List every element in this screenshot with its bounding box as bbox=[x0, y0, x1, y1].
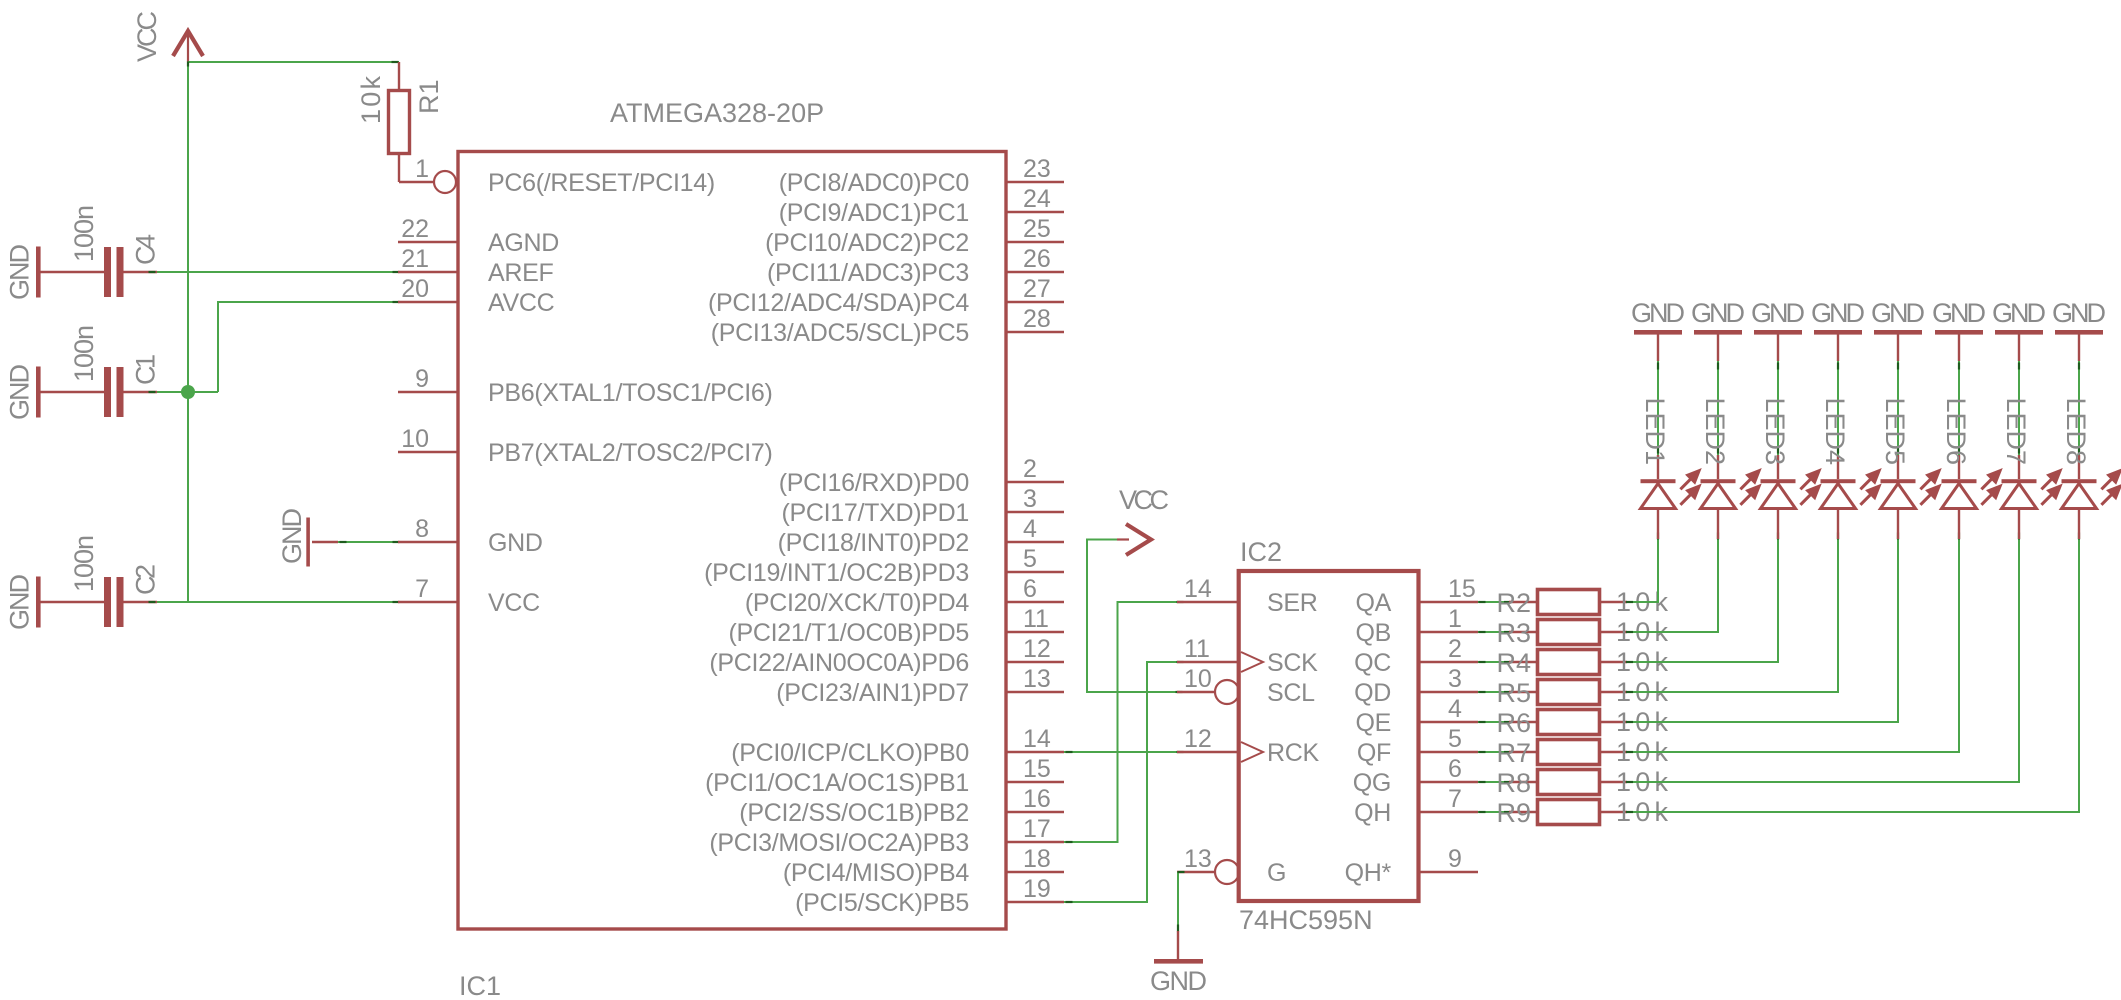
wire net: R5 to LED4 bbox=[1626, 533, 1838, 693]
svg-text:(PCI10/ADC2)PC2: (PCI10/ADC2)PC2 bbox=[765, 229, 969, 257]
svg-text:LED6: LED6 bbox=[1941, 397, 1971, 465]
IC IC1 ATMEGA328-20P body bbox=[458, 152, 1006, 930]
resistor R4 10k bbox=[1496, 647, 1668, 678]
IC2 pin 6 QG bbox=[1353, 755, 1478, 797]
IC2 pin 5 QF bbox=[1357, 725, 1478, 767]
svg-text:GND: GND bbox=[1150, 966, 1207, 996]
wire net: R8 to LED7 bbox=[1626, 533, 2019, 783]
svg-text:GND: GND bbox=[5, 364, 35, 420]
svg-text:C4: C4 bbox=[131, 234, 161, 265]
svg-text:ATMEGA328-20P: ATMEGA328-20P bbox=[610, 98, 824, 128]
svg-text:(PCI21/T1/OC0B)PD5: (PCI21/T1/OC0B)PD5 bbox=[728, 619, 969, 647]
IC1 pin 20 AVCC bbox=[398, 275, 555, 317]
IC1 pin 10 PB7(XTAL2/TOSC2/PCI7) bbox=[398, 425, 773, 467]
svg-text:22: 22 bbox=[401, 215, 429, 243]
svg-text:28: 28 bbox=[1023, 305, 1051, 333]
svg-text:GND: GND bbox=[1751, 298, 1805, 328]
IC1 pin 13 (PCI23/AIN1)PD7 bbox=[776, 665, 1064, 707]
IC1 pin 24 (PCI9/ADC1)PC1 bbox=[779, 185, 1064, 227]
svg-text:10: 10 bbox=[401, 425, 429, 453]
wire net: IC2 pin to R6 bbox=[1478, 721, 1511, 723]
svg-text:GND: GND bbox=[1932, 298, 1986, 328]
svg-text:14: 14 bbox=[1184, 575, 1212, 603]
svg-text:(PCI8/ADC0)PC0: (PCI8/ADC0)PC0 bbox=[779, 169, 969, 197]
resistor R5 10k bbox=[1496, 677, 1668, 708]
resistor R3 10k bbox=[1496, 617, 1668, 648]
ground symbol GND (C2) bbox=[5, 574, 41, 630]
svg-text:LED5: LED5 bbox=[1880, 397, 1910, 465]
svg-text:100n: 100n bbox=[69, 535, 99, 592]
svg-text:LED1: LED1 bbox=[1640, 397, 1670, 465]
svg-text:R8: R8 bbox=[1496, 768, 1531, 798]
svg-text:GND: GND bbox=[5, 574, 35, 630]
capacitor C1 100n bbox=[40, 325, 161, 417]
svg-text:14: 14 bbox=[1023, 725, 1051, 753]
svg-text:13: 13 bbox=[1023, 665, 1051, 693]
svg-text:VCC: VCC bbox=[1119, 485, 1169, 515]
wire net: IC2 pin to R2 bbox=[1478, 601, 1511, 603]
svg-text:GND: GND bbox=[1811, 298, 1865, 328]
svg-text:(PCI17/TXD)PD1: (PCI17/TXD)PD1 bbox=[781, 499, 969, 527]
IC1 pin 9 PB6(XTAL1/TOSC1/PCI6) bbox=[398, 365, 773, 407]
svg-text:(PCI19/INT1/OC2B)PD3: (PCI19/INT1/OC2B)PD3 bbox=[704, 559, 969, 587]
wire net: R4 to LED3 bbox=[1626, 533, 1778, 663]
wire net: R7 to LED6 bbox=[1626, 533, 1959, 753]
svg-text:GND: GND bbox=[488, 529, 543, 557]
junction VCC (at C1 row) bbox=[181, 385, 195, 399]
svg-text:SCL: SCL bbox=[1267, 679, 1315, 707]
ground symbol GND (C4) bbox=[5, 244, 41, 300]
svg-text:20: 20 bbox=[401, 275, 429, 303]
ground symbol GND (IC1 pin 8) bbox=[277, 508, 338, 567]
capacitor C4 100n bbox=[40, 205, 161, 297]
svg-text:IC1: IC1 bbox=[459, 971, 501, 1000]
IC1 pin 27 (PCI12/ADC4/SDA)PC4 bbox=[708, 275, 1064, 317]
svg-text:15: 15 bbox=[1023, 755, 1051, 783]
svg-text:PC6(/RESET/PCI14): PC6(/RESET/PCI14) bbox=[488, 169, 715, 197]
svg-text:R2: R2 bbox=[1496, 588, 1531, 618]
svg-text:PB6(XTAL1/TOSC1/PCI6): PB6(XTAL1/TOSC1/PCI6) bbox=[488, 379, 773, 407]
svg-text:GND: GND bbox=[1691, 298, 1745, 328]
ground symbol GND (above LED6) bbox=[1932, 298, 1986, 361]
svg-text:(PCI23/AIN1)PD7: (PCI23/AIN1)PD7 bbox=[776, 679, 969, 707]
IC2 pin 10 SCL bbox=[1177, 665, 1315, 707]
wire GND net: to LED6 cathode bbox=[1958, 361, 1960, 455]
svg-text:(PCI2/SS/OC1B)PB2: (PCI2/SS/OC1B)PB2 bbox=[739, 799, 969, 827]
wire GND net: to LED5 cathode bbox=[1897, 361, 1899, 455]
svg-text:(PCI11/ADC3)PC3: (PCI11/ADC3)PC3 bbox=[767, 259, 969, 287]
svg-text:(PCI12/ADC4/SDA)PC4: (PCI12/ADC4/SDA)PC4 bbox=[708, 289, 969, 317]
wire VCC net: to IC1 pin 20 AVCC bbox=[218, 302, 400, 392]
svg-text:PB7(XTAL2/TOSC2/PCI7): PB7(XTAL2/TOSC2/PCI7) bbox=[488, 439, 773, 467]
IC2 pin 2 QC bbox=[1354, 635, 1478, 677]
wire VCC net: vertical rail x=188 bbox=[187, 62, 189, 603]
IC IC2 74HC595N body bbox=[1239, 571, 1419, 901]
svg-text:C2: C2 bbox=[131, 564, 161, 595]
IC1 pin 23 (PCI8/ADC0)PC0 bbox=[779, 155, 1064, 197]
svg-text:7: 7 bbox=[415, 575, 429, 603]
LED LED8 bbox=[2061, 397, 2120, 539]
svg-text:VCC: VCC bbox=[132, 11, 162, 62]
IC2 pin 12 RCK bbox=[1177, 725, 1320, 767]
svg-text:G: G bbox=[1267, 859, 1286, 887]
IC1 pin 12 (PCI22/AIN0OC0A)PD6 bbox=[709, 635, 1064, 677]
wire GND net: to LED4 cathode bbox=[1837, 361, 1839, 455]
wire GND net: to IC1 pin 8 bbox=[338, 541, 400, 543]
wire GND net: to LED7 cathode bbox=[2018, 361, 2020, 455]
svg-text:R7: R7 bbox=[1496, 738, 1531, 768]
resistor R9 10k bbox=[1496, 797, 1668, 828]
IC2 pin 3 QD bbox=[1354, 665, 1478, 707]
svg-text:(PCI5/SCK)PB5: (PCI5/SCK)PB5 bbox=[795, 889, 969, 917]
label IC1 (name) bbox=[459, 971, 501, 1000]
svg-text:4: 4 bbox=[1448, 695, 1462, 723]
svg-text:1: 1 bbox=[1448, 605, 1462, 633]
wire net: R9 to LED8 bbox=[1626, 533, 2079, 813]
svg-text:GND: GND bbox=[277, 508, 307, 564]
svg-text:SCK: SCK bbox=[1267, 649, 1318, 677]
LED LED3 bbox=[1760, 397, 1819, 539]
wire net PB0-RCK: IC1 pin 14 to IC2 pin 12 bbox=[1064, 751, 1184, 753]
wire net: IC2 pin to R5 bbox=[1478, 691, 1511, 693]
capacitor C2 100n bbox=[40, 535, 161, 627]
wire VCC net: C2 row to IC1 pin 7 VCC bbox=[157, 601, 400, 603]
svg-text:R6: R6 bbox=[1496, 708, 1531, 738]
svg-text:AGND: AGND bbox=[488, 229, 559, 257]
svg-text:18: 18 bbox=[1023, 845, 1051, 873]
svg-text:VCC: VCC bbox=[488, 589, 540, 617]
wire net: IC2 pin to R8 bbox=[1478, 781, 1511, 783]
svg-text:R5: R5 bbox=[1496, 678, 1531, 708]
IC2 pin 13 G bbox=[1177, 845, 1286, 887]
svg-text:GND: GND bbox=[5, 244, 35, 300]
svg-text:21: 21 bbox=[401, 245, 429, 273]
IC1 pin 7 VCC bbox=[398, 575, 540, 617]
IC2 pin 1 QB bbox=[1355, 605, 1478, 647]
svg-text:LED2: LED2 bbox=[1700, 397, 1730, 465]
svg-text:5: 5 bbox=[1448, 725, 1462, 753]
svg-text:9: 9 bbox=[1448, 845, 1462, 873]
svg-text:AVCC: AVCC bbox=[488, 289, 555, 317]
IC1 pin 8 GND bbox=[398, 515, 543, 557]
ground symbol GND (above LED7) bbox=[1992, 298, 2046, 361]
IC2 pin 14 SER bbox=[1177, 575, 1318, 617]
svg-text:LED4: LED4 bbox=[1820, 397, 1850, 465]
svg-text:LED3: LED3 bbox=[1760, 397, 1790, 465]
svg-text:2: 2 bbox=[1023, 455, 1037, 483]
svg-text:QH: QH bbox=[1354, 799, 1391, 827]
svg-text:12: 12 bbox=[1023, 635, 1051, 663]
svg-text:100n: 100n bbox=[69, 325, 99, 382]
svg-text:6: 6 bbox=[1023, 575, 1037, 603]
svg-text:9: 9 bbox=[415, 365, 429, 393]
svg-text:1: 1 bbox=[415, 155, 429, 183]
LED LED4 bbox=[1820, 397, 1879, 539]
svg-text:11: 11 bbox=[1184, 635, 1210, 663]
svg-text:QH*: QH* bbox=[1345, 859, 1392, 887]
wire net: IC2 pin to R9 bbox=[1478, 811, 1511, 813]
svg-text:LED7: LED7 bbox=[2001, 397, 2031, 465]
svg-text:24: 24 bbox=[1023, 185, 1051, 213]
svg-text:5: 5 bbox=[1023, 545, 1037, 573]
wire net: IC2 pin to R3 bbox=[1478, 631, 1511, 633]
svg-text:10k: 10k bbox=[356, 76, 386, 125]
ground symbol GND (above LED5) bbox=[1871, 298, 1925, 361]
svg-text:4: 4 bbox=[1023, 515, 1037, 543]
ground symbol GND (above LED4) bbox=[1811, 298, 1865, 361]
svg-text:19: 19 bbox=[1023, 875, 1051, 903]
svg-text:100n: 100n bbox=[69, 205, 99, 262]
IC2 pin 9 QH* bbox=[1345, 845, 1478, 887]
wire net: R2 to LED1 bbox=[1626, 533, 1658, 603]
svg-text:QC: QC bbox=[1354, 649, 1391, 677]
wire GND net: to LED8 cathode bbox=[2078, 361, 2080, 455]
IC2 pin 11 SCK bbox=[1177, 635, 1318, 677]
svg-text:12: 12 bbox=[1184, 725, 1212, 753]
wire GND net: to LED2 cathode bbox=[1717, 361, 1719, 455]
svg-text:QE: QE bbox=[1355, 709, 1391, 737]
label ATMEGA328-20P (IC1 value) bbox=[610, 98, 824, 128]
svg-text:(PCI18/INT0)PD2: (PCI18/INT0)PD2 bbox=[778, 529, 969, 557]
svg-text:(PCI1/OC1A/OC1S)PB1: (PCI1/OC1A/OC1S)PB1 bbox=[705, 769, 969, 797]
ground symbol GND (above LED1) bbox=[1631, 298, 1685, 361]
ground symbol GND (below IC2) bbox=[1150, 931, 1207, 996]
svg-text:17: 17 bbox=[1023, 815, 1051, 843]
IC1 pin 15 (PCI1/OC1A/OC1S)PB1 bbox=[705, 755, 1064, 797]
resistor R8 10k bbox=[1496, 767, 1668, 798]
IC2 pin 4 QE bbox=[1355, 695, 1478, 737]
svg-text:7: 7 bbox=[1448, 785, 1462, 813]
svg-text:3: 3 bbox=[1448, 665, 1462, 693]
resistor R2 10k bbox=[1496, 587, 1668, 618]
IC1 pin 25 (PCI10/ADC2)PC2 bbox=[765, 215, 1064, 257]
IC1 pin 26 (PCI11/ADC3)PC3 bbox=[767, 245, 1064, 287]
svg-text:(PCI13/ADC5/SCL)PC5: (PCI13/ADC5/SCL)PC5 bbox=[711, 319, 969, 347]
svg-text:6: 6 bbox=[1448, 755, 1462, 783]
wire GND net: IC2 pin 13 to ground bbox=[1178, 872, 1185, 932]
svg-text:(PCI20/XCK/T0)PD4: (PCI20/XCK/T0)PD4 bbox=[745, 589, 970, 617]
svg-text:25: 25 bbox=[1023, 215, 1051, 243]
IC1 pin 21 AREF bbox=[398, 245, 554, 287]
svg-text:16: 16 bbox=[1023, 785, 1051, 813]
svg-text:(PCI0/ICP/CLKO)PB0: (PCI0/ICP/CLKO)PB0 bbox=[731, 739, 969, 767]
IC1 pin 1 PC6(/RESET/PCI14) bbox=[415, 155, 715, 197]
IC1 pin 4 (PCI18/INT0)PD2 bbox=[778, 515, 1064, 557]
IC1 pin 11 (PCI21/T1/OC0B)PD5 bbox=[728, 605, 1064, 647]
wire VCC net: VCC symbol to IC2 pin 10 SCL bbox=[1087, 540, 1183, 693]
ground symbol GND (C1) bbox=[5, 364, 41, 420]
LED LED5 bbox=[1880, 397, 1939, 539]
wire net: IC2 pin to R7 bbox=[1478, 751, 1511, 753]
IC1 pin 17 (PCI3/MOSI/OC2A)PB3 bbox=[709, 815, 1064, 857]
svg-text:10: 10 bbox=[1184, 665, 1212, 693]
svg-text:8: 8 bbox=[415, 515, 429, 543]
wire VCC net: C1 to junction bbox=[157, 391, 218, 393]
IC1 pin 2 (PCI16/RXD)PD0 bbox=[779, 455, 1064, 497]
svg-text:R3: R3 bbox=[1496, 618, 1531, 648]
svg-text:(PCI9/ADC1)PC1: (PCI9/ADC1)PC1 bbox=[779, 199, 969, 227]
IC1 pin 22 AGND bbox=[398, 215, 559, 257]
IC1 pin 3 (PCI17/TXD)PD1 bbox=[781, 485, 1064, 527]
IC1 pin 16 (PCI2/SS/OC1B)PB2 bbox=[739, 785, 1064, 827]
svg-text:GND: GND bbox=[1992, 298, 2046, 328]
ground symbol GND (above LED2) bbox=[1691, 298, 1745, 361]
svg-text:QD: QD bbox=[1354, 679, 1391, 707]
wire net: R3 to LED2 bbox=[1626, 533, 1718, 633]
svg-text:26: 26 bbox=[1023, 245, 1051, 273]
svg-text:GND: GND bbox=[2052, 298, 2106, 328]
svg-text:11: 11 bbox=[1023, 605, 1049, 633]
svg-text:GND: GND bbox=[1871, 298, 1925, 328]
svg-text:LED8: LED8 bbox=[2061, 397, 2091, 465]
svg-text:(PCI16/RXD)PD0: (PCI16/RXD)PD0 bbox=[779, 469, 969, 497]
wire GND net: to LED3 cathode bbox=[1777, 361, 1779, 455]
LED LED1 bbox=[1640, 397, 1699, 539]
svg-text:R9: R9 bbox=[1496, 798, 1531, 828]
wire net: R6 to LED5 bbox=[1626, 533, 1898, 723]
svg-text:(PCI22/AIN0OC0A)PD6: (PCI22/AIN0OC0A)PD6 bbox=[709, 649, 969, 677]
wire net PB3-SER: IC1 pin 17 to IC2 pin 14 bbox=[1064, 602, 1184, 842]
power symbol VCC (near IC2) bbox=[1117, 485, 1169, 555]
svg-text:QF: QF bbox=[1357, 739, 1391, 767]
svg-text:QA: QA bbox=[1355, 589, 1391, 617]
ground symbol GND (above LED3) bbox=[1751, 298, 1805, 361]
svg-text:QG: QG bbox=[1353, 769, 1391, 797]
wire GND net: to LED1 cathode bbox=[1657, 361, 1659, 455]
resistor R7 10k bbox=[1496, 737, 1668, 768]
label 74HC595N (value) bbox=[1239, 905, 1373, 935]
svg-text:QB: QB bbox=[1355, 619, 1391, 647]
IC1 pin 14 (PCI0/ICP/CLKO)PB0 bbox=[731, 725, 1064, 767]
wire VCC net: symbol to R1 top bbox=[188, 61, 399, 63]
svg-text:IC2: IC2 bbox=[1240, 537, 1282, 567]
svg-text:SER: SER bbox=[1267, 589, 1318, 617]
IC1 pin 28 (PCI13/ADC5/SCL)PC5 bbox=[711, 305, 1064, 347]
svg-text:15: 15 bbox=[1448, 575, 1476, 603]
resistor R1 10k bbox=[356, 62, 444, 182]
svg-text:3: 3 bbox=[1023, 485, 1037, 513]
svg-text:AREF: AREF bbox=[488, 259, 554, 287]
svg-text:27: 27 bbox=[1023, 275, 1051, 303]
svg-text:C1: C1 bbox=[131, 354, 161, 385]
svg-text:23: 23 bbox=[1023, 155, 1051, 183]
svg-text:R1: R1 bbox=[414, 79, 444, 114]
LED LED6 bbox=[1941, 397, 2000, 539]
IC1 pin 5 (PCI19/INT1/OC2B)PD3 bbox=[704, 545, 1064, 587]
LED LED2 bbox=[1700, 397, 1759, 539]
svg-text:2: 2 bbox=[1448, 635, 1462, 663]
svg-text:(PCI3/MOSI/OC2A)PB3: (PCI3/MOSI/OC2A)PB3 bbox=[709, 829, 969, 857]
IC2 pin 15 QA bbox=[1355, 575, 1478, 617]
power symbol VCC (top left) bbox=[132, 11, 203, 62]
IC2 pin 7 QH bbox=[1354, 785, 1478, 827]
svg-text:74HC595N: 74HC595N bbox=[1239, 905, 1373, 935]
resistor R6 10k bbox=[1496, 707, 1668, 738]
IC1 pin 6 (PCI20/XCK/T0)PD4 bbox=[745, 575, 1064, 617]
svg-text:13: 13 bbox=[1184, 845, 1212, 873]
svg-text:GND: GND bbox=[1631, 298, 1685, 328]
wire net: IC2 pin to R4 bbox=[1478, 661, 1511, 663]
svg-text:R4: R4 bbox=[1496, 648, 1531, 678]
LED LED7 bbox=[2001, 397, 2060, 539]
IC1 pin 18 (PCI4/MISO)PB4 bbox=[783, 845, 1064, 887]
ground symbol GND (above LED8) bbox=[2052, 298, 2106, 361]
IC1 pin 19 (PCI5/SCK)PB5 bbox=[795, 875, 1064, 917]
wire AREF net: C4 to IC1 pin 21 bbox=[157, 271, 400, 273]
svg-text:(PCI4/MISO)PB4: (PCI4/MISO)PB4 bbox=[783, 859, 970, 887]
wire net PB5-SCK: IC1 pin 19 to IC2 pin 11 bbox=[1064, 662, 1184, 902]
label IC2 (name) bbox=[1240, 537, 1282, 567]
svg-text:RCK: RCK bbox=[1267, 739, 1320, 767]
